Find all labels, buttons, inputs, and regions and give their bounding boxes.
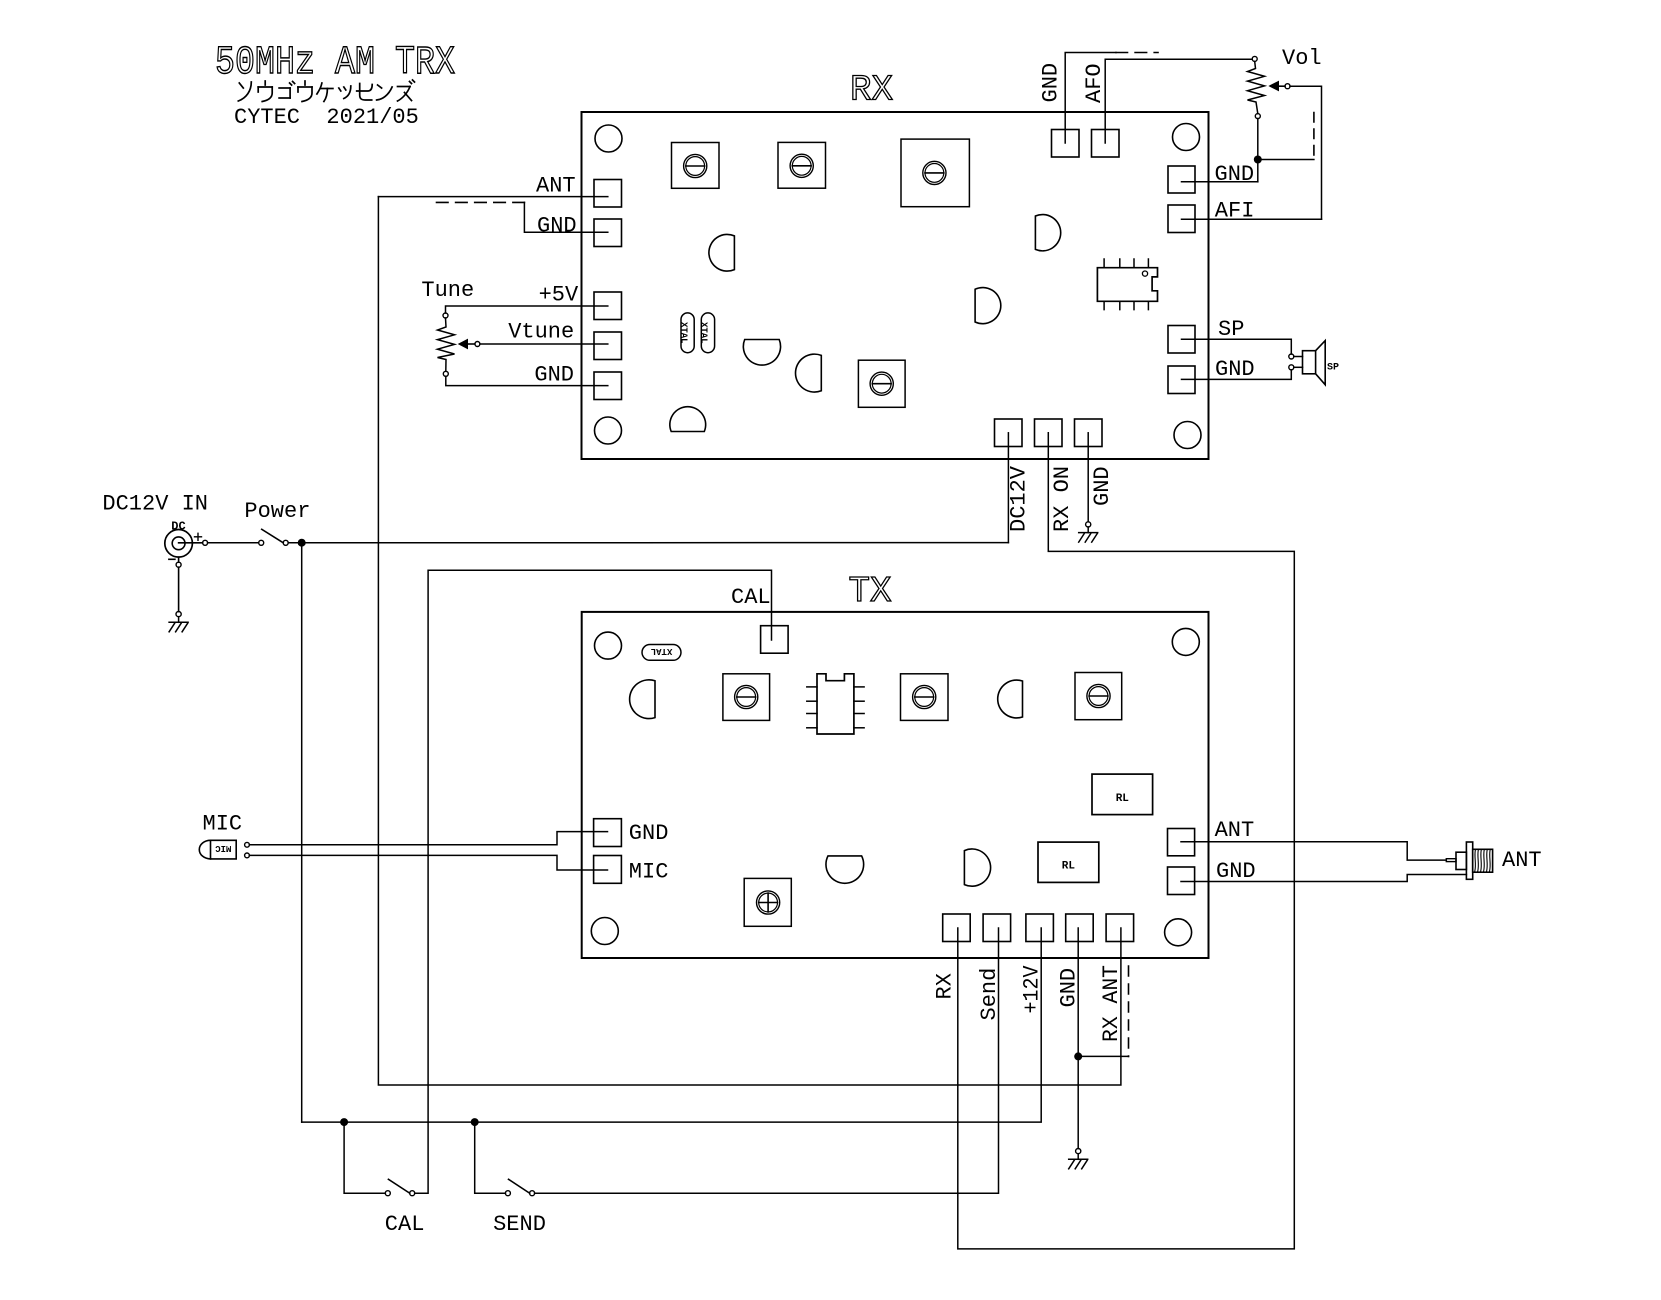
svg-text:GND: GND <box>1039 63 1064 103</box>
wire RX GND shield stub <box>524 202 607 232</box>
wire SP pad to speaker <box>1182 339 1292 354</box>
wire MIC shield to TX GND pad <box>249 832 607 845</box>
RX pad AFO <box>1092 130 1120 158</box>
svg-text:XTAL: XTAL <box>699 322 709 344</box>
svg-text:50MHz AM TRX: 50MHz AM TRX <box>215 41 455 86</box>
wire Vol wiper to AFI <box>1290 86 1322 219</box>
dashed shield wire Vol <box>1313 108 1315 155</box>
RX pad GND bottom <box>1075 419 1103 447</box>
RX pad AFI <box>1168 205 1195 233</box>
DC jack plus sign <box>195 536 202 538</box>
wire DC12V pad down to power rail <box>1007 433 1009 543</box>
RX IC U1 DIP-8 <box>1097 268 1157 302</box>
RX pad RX ON <box>1035 419 1063 447</box>
TX relay RL2 <box>1038 842 1099 882</box>
TX pad ANT right <box>1168 829 1195 856</box>
dashed shield wire at RX ANT <box>431 201 524 203</box>
TX mounting hole top-left <box>595 632 622 659</box>
wire GND top pad up <box>1065 53 1116 144</box>
RX transistor Q2 <box>1035 215 1060 251</box>
wire GND pad to speaker <box>1182 370 1292 380</box>
svg-text:CYTEC 2021/05: CYTEC 2021/05 <box>234 105 419 130</box>
TX board outline <box>582 612 1209 958</box>
junction CAL branch <box>340 1118 348 1126</box>
RX trimmer capacitor C2 <box>778 142 826 188</box>
dashed shield wire top <box>1116 52 1158 54</box>
svg-text:SP: SP <box>1327 363 1339 374</box>
TX pad RX ANT bottom <box>1106 914 1134 942</box>
RX mounting hole bottom-right <box>1174 422 1201 449</box>
TX pad Send bottom <box>983 914 1011 942</box>
svg-text:GND: GND <box>1215 357 1255 382</box>
TX trimmer capacitor C1 <box>723 674 770 721</box>
RX crystal XTAL1 <box>681 313 694 353</box>
RX pad GND top <box>1052 130 1080 158</box>
svg-text:GND: GND <box>629 821 669 846</box>
wire AFO to volume pot <box>1105 59 1252 143</box>
RX trimmer capacitor C4 <box>858 360 905 407</box>
junction Vol bottom <box>1254 156 1262 164</box>
TX mounting hole top-right <box>1172 628 1199 655</box>
svg-text:Vol: Vol <box>1282 46 1322 71</box>
wire GND right pad to Vol bottom <box>1182 181 1258 183</box>
dashed shield RX ANT to GND <box>1128 966 1130 1056</box>
svg-text:ANT: ANT <box>1215 818 1255 843</box>
svg-text:CAL: CAL <box>731 585 771 610</box>
RX pad SP <box>1168 326 1195 354</box>
svg-text:GND: GND <box>537 213 577 238</box>
TX pad MIC <box>594 856 622 884</box>
wire junction to dashed shield <box>1258 159 1314 161</box>
Vol pot wiper arrow <box>1268 81 1279 92</box>
RX transistor Q6 <box>670 407 706 432</box>
svg-text:RL: RL <box>1116 793 1130 805</box>
ground symbol TX <box>1076 1149 1081 1154</box>
svg-text:XTAL: XTAL <box>651 646 673 656</box>
wire TX GND pad to connector <box>1181 875 1466 882</box>
svg-text:TX: TX <box>849 571 892 612</box>
switch Power <box>259 540 264 545</box>
DC jack plus terminal <box>203 540 208 545</box>
svg-text:GND: GND <box>1216 859 1256 884</box>
wire +12V feed down <box>301 543 303 1122</box>
microphone terminals <box>245 842 250 847</box>
TX relay RL1 <box>1092 774 1153 815</box>
switch SEND <box>505 1191 510 1196</box>
title katakana sougoukessenzu <box>239 83 243 88</box>
svg-text:GND: GND <box>1215 162 1255 187</box>
TX pad +12V bottom <box>1026 914 1054 942</box>
svg-text:SP: SP <box>1218 317 1244 342</box>
RX pad GND left-upper <box>594 219 622 247</box>
TX IC U2 DIP-8 <box>817 674 854 734</box>
wire RX ANT pad to antenna bus <box>378 196 607 198</box>
svg-text:RL: RL <box>1062 861 1076 873</box>
wire minus terminal to ground <box>178 557 180 562</box>
RX mounting hole bottom-left <box>595 417 622 444</box>
DC jack minus sign <box>169 558 175 560</box>
svg-text:RX ON: RX ON <box>1050 466 1075 532</box>
RX transistor Q5 <box>795 354 821 392</box>
svg-text:MIC: MIC <box>629 860 669 885</box>
svg-text:Tune: Tune <box>421 278 474 303</box>
svg-text:AFO: AFO <box>1082 63 1107 103</box>
speaker SP terminals <box>1289 354 1294 359</box>
switch CAL <box>385 1191 390 1196</box>
RX pad GND right-upper <box>1168 166 1195 193</box>
TX mounting hole bottom-right <box>1165 919 1192 946</box>
TX trimmer capacitor C2 <box>901 674 949 721</box>
wire Tune pot bottom to GND pad <box>446 376 608 385</box>
svg-text:Power: Power <box>244 499 310 524</box>
svg-text:ANT: ANT <box>536 174 576 199</box>
wire RX ON net <box>958 433 1295 1249</box>
svg-text:ANT: ANT <box>1502 848 1542 873</box>
RX mounting hole top-left <box>595 125 622 152</box>
svg-text:AFI: AFI <box>1215 199 1255 224</box>
svg-text:MIC: MIC <box>203 812 243 837</box>
TX crystal XTAL <box>642 645 681 661</box>
svg-text:DC12V IN: DC12V IN <box>102 492 208 517</box>
svg-text:GND: GND <box>534 363 574 388</box>
TX trimmer capacitor C4 <box>744 878 791 926</box>
potentiometer Vol <box>1252 56 1257 61</box>
svg-text:GND: GND <box>1090 466 1115 506</box>
svg-text:Vtune: Vtune <box>508 320 574 345</box>
TX pad GND bottom <box>1066 914 1094 942</box>
TX transistor Q1 <box>630 680 655 719</box>
wire MIC signal to TX MIC pad <box>249 855 607 870</box>
svg-text:SEND: SEND <box>493 1212 546 1237</box>
microphone MIC <box>211 840 237 859</box>
svg-text:DC12V: DC12V <box>1007 465 1032 532</box>
wire TX ANT pad to connector <box>1181 842 1446 860</box>
svg-text:RX: RX <box>933 973 958 999</box>
wire AFI pad to wiper line <box>1182 218 1322 220</box>
TX transistor Q4 <box>964 849 990 886</box>
RX transistor Q4 <box>743 340 780 366</box>
RX pad +5V <box>594 292 622 320</box>
junction Power output <box>298 539 306 547</box>
svg-text:MIC: MIC <box>215 843 232 853</box>
wire Vol bottom to GND pad <box>1257 119 1259 182</box>
TX transistor Q2 <box>998 680 1023 718</box>
RX board outline <box>582 112 1209 459</box>
ground symbol RX <box>1086 522 1091 527</box>
junction SEND branch <box>471 1118 479 1126</box>
RX transistor Q1 <box>709 234 735 271</box>
TX pad GND left <box>594 819 622 847</box>
TX pad GND right <box>1168 867 1195 895</box>
speaker SP <box>1294 356 1303 358</box>
wire CAL switch to TX CAL pad <box>415 570 772 1193</box>
RX pad DC12V <box>995 419 1023 447</box>
Tune pot wiper arrow <box>458 339 468 350</box>
svg-text:XTAL: XTAL <box>678 322 688 344</box>
svg-text:CAL: CAL <box>385 1212 425 1237</box>
wire junction to SEND switch <box>475 1122 506 1193</box>
RX IC U1 pin-1 dot <box>1142 271 1147 276</box>
RX trimmer capacitor C1 <box>672 143 720 189</box>
RX pad GND right-lower <box>1168 366 1195 394</box>
wire +5V to Tune pot <box>446 306 608 313</box>
wire SEND switch to TX Send pad <box>535 928 999 1193</box>
potentiometer Tune <box>443 313 448 318</box>
RX trimmer capacitor C3 <box>901 139 969 207</box>
wire shield to GND junction <box>1078 1055 1128 1057</box>
wire +12V rail to TX <box>302 928 1041 1122</box>
RX pad GND left-lower <box>594 372 622 400</box>
wire Vtune wiper to pad <box>480 343 608 345</box>
RX transistor Q3 <box>975 288 1001 324</box>
wire GND pad to ground <box>1087 433 1089 522</box>
RX crystal XTAL2 <box>701 313 714 353</box>
TX mounting hole bottom-left <box>591 918 618 945</box>
wire TX GND pad to ground <box>1077 928 1079 1149</box>
wire Power switch to DC12V rail <box>288 542 1008 544</box>
junction shield GND <box>1074 1052 1082 1060</box>
wire RX ANT bus <box>378 197 1121 1085</box>
TX transistor Q3 <box>826 856 864 883</box>
RX pad ANT <box>594 180 622 208</box>
TX trimmer capacitor C3 <box>1075 673 1122 720</box>
RX pad Vtune <box>594 332 622 360</box>
ground symbol DC input <box>176 612 181 617</box>
DC jack minus terminal <box>176 562 181 567</box>
TX pad CAL <box>761 626 789 654</box>
wire junction to CAL switch <box>344 1122 385 1193</box>
antenna connector ANT <box>1446 859 1456 862</box>
TX pad RX bottom <box>943 914 971 942</box>
RX mounting hole top-right <box>1173 124 1200 151</box>
svg-text:+5V: +5V <box>539 283 579 308</box>
wire DC plus to Power switch <box>208 542 259 544</box>
svg-text:RX: RX <box>850 69 893 110</box>
